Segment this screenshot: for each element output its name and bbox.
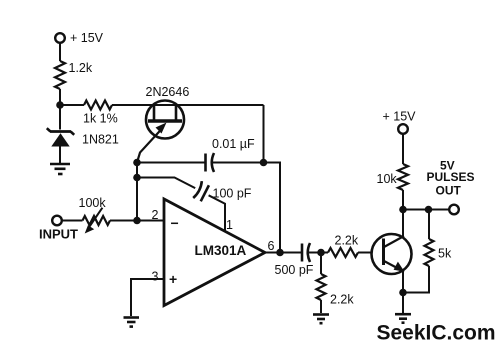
node I junction bbox=[399, 289, 407, 297]
terminal pulses out bbox=[449, 205, 459, 215]
svg-text:SeekIC.com: SeekIC.com bbox=[377, 322, 496, 345]
wire R7 to emitter node bbox=[403, 266, 429, 293]
wire node A to D1 bbox=[59, 105, 61, 130]
svg-text:INPUT: INPUT bbox=[39, 227, 78, 242]
wire node D to C2 bbox=[137, 178, 195, 189]
transistor Q1 2N2646 bbox=[137, 101, 184, 163]
svg-text:3: 3 bbox=[152, 270, 159, 284]
ground below Q2 bbox=[395, 314, 411, 323]
capacitor C2 100pF bbox=[193, 181, 209, 202]
resistor R5 2.2k vertical bbox=[317, 274, 326, 300]
resistor R4 2.2k horizontal bbox=[328, 248, 358, 257]
svg-text:2N2646: 2N2646 bbox=[146, 85, 190, 99]
svg-text:100 pF: 100 pF bbox=[213, 187, 252, 201]
ground below D1 bbox=[50, 164, 70, 174]
wire R5 to ground bbox=[320, 300, 322, 313]
svg-text:100k: 100k bbox=[79, 196, 107, 210]
wire C1 to node B bbox=[213, 162, 264, 164]
node F junction bbox=[317, 249, 325, 257]
svg-text:2: 2 bbox=[152, 208, 159, 222]
wire R3 to node E bbox=[110, 220, 164, 222]
svg-text:0.01 µF: 0.01 µF bbox=[212, 137, 255, 151]
svg-text:500 pF: 500 pF bbox=[275, 263, 314, 277]
capacitor C1 0.01uF bbox=[206, 153, 215, 172]
resistor R7 5k bbox=[425, 239, 434, 266]
svg-text:+ 15V: + 15V bbox=[383, 110, 417, 124]
wire terminal to R1 bbox=[59, 43, 61, 61]
wire corner down to node B bbox=[263, 105, 265, 163]
svg-text:10k: 10k bbox=[377, 172, 398, 186]
svg-text:OUT: OUT bbox=[436, 184, 462, 198]
wire C3 to node F bbox=[309, 252, 328, 254]
ground below pin3 bbox=[124, 318, 140, 327]
svg-text:+ 15V: + 15V bbox=[70, 31, 104, 45]
wire node A to R2 bbox=[60, 104, 84, 106]
node B junction bbox=[260, 159, 268, 167]
svg-text:5k: 5k bbox=[438, 247, 452, 261]
svg-text:2.2k: 2.2k bbox=[335, 234, 359, 248]
node H junction bbox=[425, 206, 433, 214]
resistor R2 1k 1% bbox=[84, 101, 112, 110]
wire Q2 collector up bbox=[402, 210, 404, 237]
op-amp U1 LM301A bbox=[164, 199, 265, 306]
wire R4 to Q2 base bbox=[358, 252, 373, 254]
wire R1 to node A bbox=[59, 89, 61, 105]
wire emitter node to ground bbox=[402, 293, 404, 314]
wire C2 to pin 1 bbox=[209, 195, 225, 231]
wire node F down to R5 bbox=[320, 253, 322, 275]
terminal +15V left bbox=[55, 33, 65, 43]
node C junction bbox=[133, 159, 141, 167]
wire node C to C1 bbox=[137, 162, 205, 164]
svg-text:2.2k: 2.2k bbox=[330, 293, 354, 307]
wire terminal to R6 bbox=[402, 134, 404, 164]
wire Q2 emitter down bbox=[402, 272, 404, 293]
node E junction bbox=[133, 217, 141, 225]
ground below R5 bbox=[313, 315, 329, 324]
node G junction bbox=[399, 206, 407, 214]
zener diode D1 1N821 bbox=[47, 128, 74, 163]
wire output bbox=[403, 209, 449, 211]
node rail C-D-E bbox=[136, 163, 138, 221]
resistor R3 100k variable bbox=[83, 208, 111, 234]
node D junction bbox=[133, 174, 141, 182]
wire top rail to corner bbox=[112, 104, 264, 106]
svg-text:PULSES: PULSES bbox=[427, 170, 475, 184]
transistor Q2 bbox=[372, 234, 412, 274]
svg-text:1.2k: 1.2k bbox=[69, 61, 93, 75]
terminal INPUT bbox=[52, 216, 62, 226]
node pin6 junction bbox=[276, 249, 284, 257]
svg-text:LM301A: LM301A bbox=[195, 243, 247, 258]
terminal +15V right bbox=[398, 124, 408, 134]
wire pin6 to C3 bbox=[265, 252, 301, 254]
svg-text:6: 6 bbox=[268, 239, 275, 253]
wire R6 to collector node bbox=[402, 190, 404, 210]
wire input terminal to R3 bbox=[62, 220, 83, 222]
capacitor C3 500pF bbox=[302, 243, 310, 262]
svg-text:+: + bbox=[169, 271, 177, 287]
svg-text:1k 1%: 1k 1% bbox=[83, 112, 118, 126]
resistor R6 10k bbox=[398, 164, 408, 190]
wire node B jog down to pin6 node bbox=[264, 163, 281, 253]
node A junction bbox=[56, 101, 64, 109]
svg-text:1N821: 1N821 bbox=[82, 133, 119, 147]
svg-text:1: 1 bbox=[226, 218, 233, 232]
wire node H down to R7 bbox=[428, 210, 430, 240]
svg-text:−: − bbox=[171, 215, 179, 231]
wire pin3 to ground bbox=[131, 279, 164, 316]
resistor R1 1.2k bbox=[55, 61, 65, 89]
